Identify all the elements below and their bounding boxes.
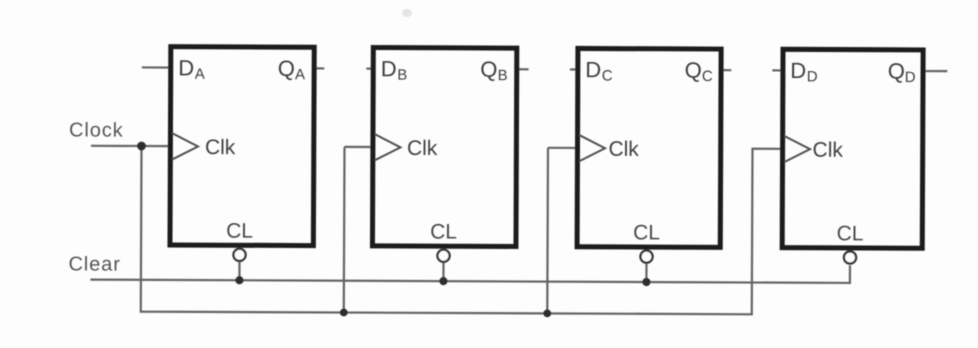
- svg-text:Q: Q: [888, 58, 905, 83]
- svg-text:Clk: Clk: [205, 136, 236, 159]
- svg-text:A: A: [295, 66, 305, 83]
- svg-text:Clear: Clear: [68, 253, 120, 275]
- svg-text:Clk: Clk: [407, 137, 438, 160]
- svg-text:D: D: [905, 69, 916, 86]
- svg-text:Clock: Clock: [69, 119, 124, 141]
- svg-text:Clk: Clk: [608, 138, 639, 161]
- svg-text:B: B: [397, 67, 407, 84]
- svg-text:Q: Q: [278, 56, 295, 81]
- svg-text:Clk: Clk: [813, 139, 844, 162]
- svg-text:Q: Q: [480, 57, 497, 82]
- svg-text:D: D: [178, 55, 194, 80]
- svg-text:B: B: [498, 67, 508, 84]
- svg-text:D: D: [585, 57, 601, 82]
- svg-text:C: C: [602, 68, 613, 85]
- svg-text:D: D: [381, 56, 397, 81]
- svg-text:A: A: [195, 66, 205, 83]
- svg-text:C: C: [702, 68, 713, 85]
- svg-text:CL: CL: [633, 221, 660, 244]
- svg-text:CL: CL: [837, 222, 864, 245]
- svg-text:Q: Q: [685, 58, 702, 83]
- svg-text:CL: CL: [430, 220, 457, 243]
- svg-text:CL: CL: [226, 220, 253, 243]
- svg-text:D: D: [790, 58, 806, 83]
- svg-text:D: D: [807, 68, 818, 85]
